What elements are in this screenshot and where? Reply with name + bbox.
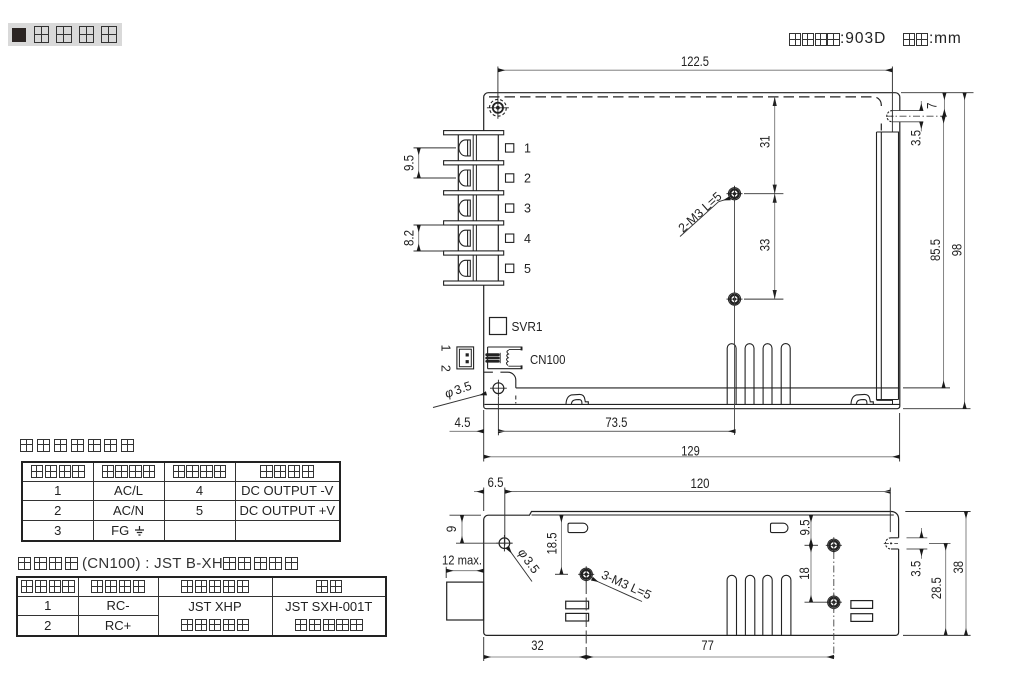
- pads below center hole: [566, 601, 589, 609]
- dim 9.5 side: [805, 544, 819, 546]
- leader phi3.5 top view: [433, 393, 486, 407]
- svg-text:31: 31: [758, 136, 773, 149]
- slot D right: [771, 523, 788, 532]
- svg-text:2: 2: [524, 172, 531, 186]
- svg-text:CN100: CN100: [530, 353, 566, 367]
- 或同等级品: [181, 619, 193, 631]
- keyhole notch top view: [887, 111, 893, 122]
- svg-text:73.5: 73.5: [605, 415, 627, 430]
- cover dashed outline: [489, 97, 881, 131]
- phi3.5 hole side: [496, 535, 512, 551]
- svg-text:SVR1: SVR1: [512, 320, 543, 334]
- 引脚功能: [91, 580, 103, 592]
- dim 28.5: [945, 543, 947, 635]
- 引脚编号: [21, 580, 33, 592]
- dim 7: [901, 92, 974, 94]
- bottom flange bend line: [516, 387, 899, 389]
- leader phi3.5 side: [508, 548, 533, 582]
- dim 32 / 77: [483, 637, 485, 661]
- svg-text:38: 38: [951, 561, 966, 574]
- 引脚编号: [173, 465, 185, 477]
- case model text: [0, 30, 1016, 48]
- keyhole side view: [885, 538, 891, 549]
- dim 6.5: [483, 488, 485, 512]
- 引脚编号: [31, 465, 43, 477]
- 机构尺寸: [34, 26, 50, 43]
- terminal block body: [458, 132, 498, 283]
- 对应连接器: [181, 580, 193, 592]
- svg-text:18: 18: [797, 567, 812, 580]
- dim 31 / 33: [774, 97, 776, 299]
- svg-text:32: 32: [531, 638, 544, 653]
- bar bottom step: [877, 400, 893, 404]
- slot D left: [568, 523, 588, 532]
- 遥控开关: [18, 557, 31, 570]
- svg-text:3: 3: [524, 202, 531, 216]
- case top line under cover: [532, 514, 894, 516]
- svg-text:18.5: 18.5: [545, 533, 560, 555]
- svg-text:77: 77: [701, 638, 714, 653]
- pads right of bottom hole: [851, 601, 873, 609]
- svg-text:4.5: 4.5: [455, 415, 471, 430]
- bar inner line: [880, 132, 882, 400]
- dim 18 side: [805, 601, 827, 603]
- vent slots top view: [727, 344, 790, 405]
- dim 4.5 / 73.5: [483, 410, 485, 462]
- center line right holes: [833, 539, 835, 661]
- dim 12 max: [445, 567, 447, 578]
- CN100 mating plug: [457, 347, 474, 369]
- M3 hole center (3-M3): [578, 566, 594, 582]
- terminal block side: [447, 582, 484, 620]
- svg-text:3.5: 3.5: [452, 379, 473, 398]
- svg-text:12 max.: 12 max.: [442, 552, 482, 567]
- svg-text:129: 129: [681, 443, 700, 459]
- 端子: [316, 580, 328, 592]
- svg-text:9: 9: [444, 526, 459, 533]
- svg-text:5: 5: [524, 262, 531, 276]
- svg-text:2-M3 L=5: 2-M3 L=5: [676, 189, 725, 235]
- 引脚功能: [260, 465, 272, 477]
- svg-text:3-M3 L=5: 3-M3 L=5: [599, 568, 653, 603]
- 单位: [903, 33, 915, 45]
- 或同等级品: [295, 619, 307, 631]
- 2-M3 mounting holes: [727, 186, 743, 307]
- dim 122.5: [497, 67, 499, 97]
- leader 3-M3: [598, 582, 643, 602]
- table 1 title 端子台脚位定义: [20, 437, 134, 453]
- table 2 title 遥控开关: [18, 555, 298, 572]
- leader 2-M3: [680, 202, 719, 237]
- dim 3.5 side: [921, 528, 923, 538]
- corner rivet: [487, 97, 509, 119]
- svg-text:3.5: 3.5: [909, 561, 924, 577]
- phi3.5 mounting hole: [490, 380, 507, 397]
- svg-text:85.5: 85.5: [928, 239, 943, 261]
- dim 129: [899, 413, 901, 462]
- SVR1 square: [490, 318, 507, 335]
- M3 hole top right: [826, 537, 842, 553]
- terminal screws: [459, 140, 470, 276]
- 机壳型号: [789, 33, 801, 45]
- dim 98: [903, 408, 971, 410]
- foot tab right: [851, 394, 873, 404]
- 或同等级品: [223, 557, 236, 570]
- CN100 connector: [485, 347, 522, 369]
- right side flange bar: [877, 132, 899, 400]
- dim 9: [450, 514, 482, 516]
- svg-text:98: 98: [950, 244, 965, 257]
- 端子台脚位定义: [20, 439, 33, 452]
- header block 机构尺寸: [8, 23, 122, 46]
- 引脚功能: [102, 465, 114, 477]
- bottom-left flange bend: [484, 372, 516, 388]
- table 2 CN100 connector: [16, 576, 387, 637]
- center line hole2: [585, 581, 587, 660]
- dim 9.5 terminal: [414, 147, 457, 149]
- M3 hole bottom right: [826, 594, 842, 610]
- hole center line: [734, 199, 736, 435]
- svg-text:9.5: 9.5: [798, 520, 813, 536]
- dim 38: [905, 511, 970, 513]
- vent slots side view: [727, 575, 791, 635]
- svg-text:122.5: 122.5: [681, 53, 709, 69]
- dim 8.2 terminal: [414, 224, 451, 226]
- svg-text:33: 33: [758, 239, 773, 252]
- svg-text:1: 1: [524, 142, 531, 156]
- chain arrowheads 31/33: [773, 97, 777, 299]
- case outline top view: [484, 93, 900, 409]
- dim 3.5 keyhole: [920, 101, 922, 111]
- svg-text:3.5: 3.5: [909, 130, 924, 146]
- case outline side view: [484, 512, 899, 636]
- case bottom inner line: [485, 403, 900, 405]
- svg-text:8.2: 8.2: [402, 230, 417, 246]
- terminal block bars: [444, 131, 504, 286]
- hidden dash below flange: [515, 396, 517, 404]
- svg-text:4: 4: [524, 232, 531, 246]
- pin squares: [506, 144, 514, 273]
- table 1 terminal pin definitions: [21, 461, 341, 542]
- svg-text:6.5: 6.5: [488, 475, 504, 490]
- svg-text:9.5: 9.5: [402, 155, 417, 171]
- svg-text:1 2: 1 2: [439, 345, 453, 377]
- svg-text:7: 7: [925, 102, 940, 109]
- svg-text:28.5: 28.5: [929, 577, 944, 599]
- foot tab center: [566, 394, 588, 404]
- svg-text:120: 120: [691, 475, 710, 491]
- dim 120: [889, 488, 891, 533]
- dim 18.5: [555, 573, 568, 575]
- dim 85.5: [903, 387, 950, 389]
- terminal block inner rails: [472, 132, 474, 283]
